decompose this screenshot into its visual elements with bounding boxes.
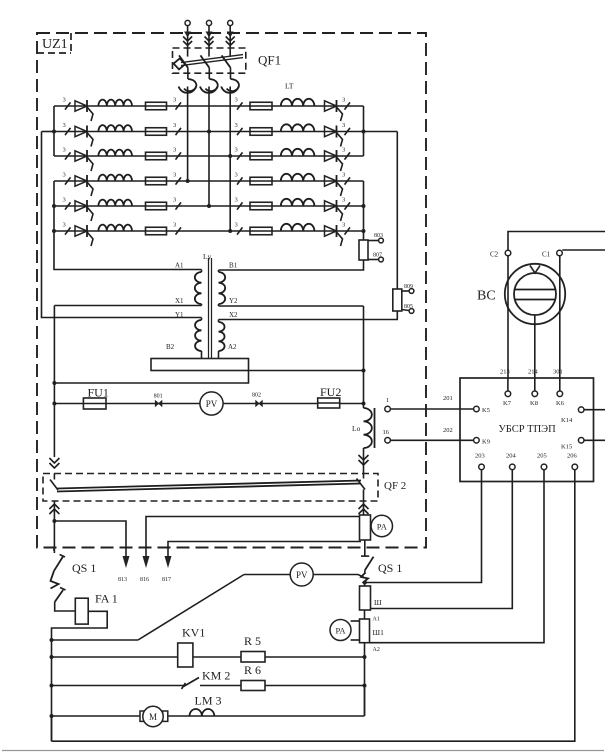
svg-text:УБСР ТПЭП: УБСР ТПЭП bbox=[498, 424, 556, 435]
contactor row wire bbox=[52, 685, 184, 687]
svg-text:203: 203 bbox=[475, 453, 485, 460]
motor row wire bbox=[52, 715, 365, 717]
svg-text:3: 3 bbox=[235, 147, 238, 154]
fuse row 2 left bbox=[146, 128, 167, 136]
svg-text:3: 3 bbox=[235, 97, 238, 104]
inductor row 1 right bbox=[281, 99, 315, 106]
contact KM2 bbox=[182, 683, 186, 689]
svg-text:K15: K15 bbox=[561, 444, 572, 451]
row 6 parallel mark left inner bbox=[176, 227, 182, 234]
svg-text:A1: A1 bbox=[175, 262, 184, 270]
svg-text:201: 201 bbox=[443, 395, 453, 402]
row 1 parallel mark left outer bbox=[65, 102, 71, 109]
svg-text:3: 3 bbox=[63, 122, 66, 129]
svg-text:3: 3 bbox=[63, 172, 66, 179]
circuit breaker QF1 bbox=[173, 48, 246, 106]
voltmeter row wire bbox=[54, 403, 363, 405]
svg-text:K14: K14 bbox=[561, 417, 573, 424]
svg-text:PV: PV bbox=[206, 399, 218, 409]
left output wire to QS1 bbox=[53, 501, 55, 553]
terminal K8 bbox=[534, 378, 536, 391]
inductor row 1 left bbox=[98, 100, 132, 106]
thyristor row 2 left bbox=[75, 126, 87, 136]
outer left bus down to Y1 bbox=[42, 132, 202, 318]
svg-text:X2: X2 bbox=[229, 311, 238, 319]
row 4 parallel mark left outer bbox=[65, 177, 71, 184]
row 2 parallel mark right outer bbox=[345, 128, 351, 135]
thyristor row 4 left bbox=[75, 176, 87, 186]
svg-text:801: 801 bbox=[154, 394, 163, 400]
terminal C1 bbox=[557, 250, 563, 256]
QF2 left post bbox=[53, 474, 55, 480]
svg-text:QF1: QF1 bbox=[258, 53, 281, 68]
QF2 left contact bbox=[50, 480, 58, 491]
wire QS1 to FA1 bbox=[55, 602, 76, 611]
wire BC mid to K8 bbox=[534, 315, 536, 391]
svg-text:3: 3 bbox=[235, 222, 238, 229]
svg-text:809: 809 bbox=[404, 284, 413, 290]
ammeter PA lower bbox=[351, 620, 360, 622]
terminal K6 bbox=[559, 378, 561, 391]
wire busbar to output bus left bbox=[54, 371, 248, 384]
tap wire 817 bbox=[168, 542, 361, 557]
fuse row 3 right bbox=[250, 152, 272, 160]
svg-text:301: 301 bbox=[553, 369, 563, 376]
wire Lo to QF2 bbox=[363, 448, 365, 474]
svg-text:3: 3 bbox=[342, 197, 345, 204]
row 4 parallel mark right outer bbox=[345, 177, 351, 184]
inductor row 2 right bbox=[281, 124, 315, 131]
row 3 wire bbox=[54, 155, 364, 157]
tap wire 813 bbox=[54, 521, 126, 556]
svg-text:A2: A2 bbox=[373, 647, 380, 653]
row 4 wire bbox=[54, 180, 364, 182]
relay coil KV1 bbox=[178, 643, 193, 667]
svg-text:LM 3: LM 3 bbox=[195, 694, 222, 708]
svg-text:PA: PA bbox=[377, 522, 388, 532]
svg-text:214: 214 bbox=[528, 369, 539, 376]
svg-text:3: 3 bbox=[235, 122, 238, 129]
svg-text:K8: K8 bbox=[530, 400, 538, 407]
left control bus bbox=[51, 640, 53, 741]
Y2 wire down bbox=[219, 305, 364, 307]
svg-text:3: 3 bbox=[63, 197, 66, 204]
equalizing reactor Ly bbox=[195, 258, 225, 359]
fuse row 1 left bbox=[146, 102, 167, 110]
svg-text:A1: A1 bbox=[373, 617, 380, 623]
right column wire bbox=[364, 581, 366, 586]
row 3 parallel mark left outer bbox=[65, 152, 71, 159]
scan page edge bbox=[2, 750, 604, 752]
svg-text:3: 3 bbox=[63, 147, 66, 154]
voltmeter PV bbox=[200, 392, 223, 415]
row 4 parallel mark left inner bbox=[176, 177, 182, 184]
svg-text:B1: B1 bbox=[229, 262, 238, 270]
svg-text:KV1: KV1 bbox=[182, 626, 205, 640]
svg-text:803: 803 bbox=[374, 233, 383, 239]
svg-text:3: 3 bbox=[173, 147, 176, 154]
thyristor row 1 right bbox=[325, 101, 337, 111]
outer right bus down to RC box bbox=[396, 132, 398, 290]
svg-text:K6: K6 bbox=[556, 400, 565, 407]
svg-text:204: 204 bbox=[506, 453, 517, 460]
smoothing reactor Lo bbox=[364, 408, 372, 448]
svg-text:3: 3 bbox=[173, 122, 176, 129]
thyristor row 6 right bbox=[325, 226, 337, 236]
inductor row 6 right bbox=[281, 224, 315, 231]
fuse row 6 right bbox=[250, 227, 272, 235]
tachogenerator BC bbox=[505, 264, 565, 324]
svg-text:802: 802 bbox=[252, 393, 261, 399]
svg-text:K7: K7 bbox=[503, 400, 512, 407]
fuse FA1 bbox=[75, 598, 88, 624]
svg-text:3: 3 bbox=[342, 172, 345, 179]
reactor output busbar bbox=[151, 359, 249, 371]
svg-text:K9: K9 bbox=[482, 438, 490, 445]
terminal K15 wire bbox=[578, 438, 584, 444]
bottom bus bbox=[51, 716, 53, 741]
wire row2 to outer left bus bbox=[42, 131, 55, 133]
row 2 parallel mark left outer bbox=[65, 128, 71, 135]
svg-text:ВС: ВС bbox=[477, 289, 496, 304]
svg-text:R 6: R 6 bbox=[244, 663, 261, 677]
svg-text:R 5: R 5 bbox=[244, 634, 261, 648]
row 1 parallel mark right inner bbox=[237, 102, 243, 109]
thyristor row 3 right bbox=[325, 151, 337, 161]
fuse row 4 right bbox=[250, 177, 272, 185]
ammeter shunt bbox=[360, 515, 371, 540]
shunt Sh bbox=[360, 586, 371, 610]
svg-text:X1: X1 bbox=[175, 297, 184, 305]
terminal 203 wire bbox=[479, 464, 485, 470]
svg-text:813: 813 bbox=[118, 577, 127, 583]
row 6 wire bbox=[54, 230, 364, 232]
svg-text:202: 202 bbox=[443, 427, 453, 434]
row 6 parallel mark left outer bbox=[65, 227, 71, 234]
terminal K9 bbox=[474, 438, 480, 444]
terminal 204 wire bbox=[510, 464, 516, 470]
input supply terminals with connector arrows bbox=[183, 20, 235, 56]
snubber box 803-807 bbox=[359, 240, 368, 260]
svg-text:Y2: Y2 bbox=[229, 297, 238, 305]
converter unit UZ1 dashed enclosure bbox=[37, 33, 426, 548]
row 2 parallel mark left inner bbox=[176, 128, 182, 135]
QF2 right contact bbox=[357, 479, 366, 490]
svg-text:QF 2: QF 2 bbox=[384, 480, 406, 492]
svg-text:807: 807 bbox=[373, 253, 382, 259]
row 3 parallel mark right outer bbox=[345, 152, 351, 159]
svg-text:3: 3 bbox=[342, 122, 345, 129]
phase bus B wire bbox=[208, 106, 210, 206]
fuse row 1 right bbox=[250, 102, 272, 110]
wire busbar to right bus bbox=[249, 370, 364, 372]
svg-text:PA: PA bbox=[335, 626, 346, 636]
phase bus C wire bbox=[229, 106, 231, 231]
row 1 parallel mark right outer bbox=[345, 102, 351, 109]
output bus right segment bbox=[363, 371, 365, 409]
group2 right bus to RC box bbox=[363, 231, 365, 240]
wire C1 off-page bbox=[562, 249, 605, 251]
wire box to X2 bbox=[219, 311, 398, 320]
right column lower wire bbox=[364, 643, 366, 716]
terminal K14 wire bbox=[578, 407, 584, 413]
svg-text:M: M bbox=[149, 712, 157, 722]
cathode group 1 left bus bbox=[53, 106, 55, 156]
thyristor row 5 right bbox=[325, 201, 337, 211]
svg-text:Lо: Lо bbox=[352, 424, 361, 433]
row 5 parallel mark right inner bbox=[237, 202, 243, 209]
row 1 parallel mark left inner bbox=[176, 102, 182, 109]
group 2 bus down to A1 bbox=[54, 231, 202, 270]
fuse row 5 left bbox=[146, 202, 167, 210]
svg-text:A2: A2 bbox=[228, 343, 237, 351]
wire FA1 out bbox=[52, 611, 108, 640]
svg-text:3: 3 bbox=[173, 172, 176, 179]
inductor row 3 left bbox=[98, 150, 132, 156]
thyristor row 1 left bbox=[75, 101, 87, 111]
svg-text:816: 816 bbox=[140, 577, 149, 583]
row 6 parallel mark right inner bbox=[237, 227, 243, 234]
thyristor row 2 right bbox=[325, 126, 337, 136]
svg-text:16: 16 bbox=[383, 429, 390, 436]
connector 802 bbox=[256, 401, 263, 407]
svg-text:C2: C2 bbox=[490, 251, 499, 259]
resistor R6 bbox=[241, 681, 265, 691]
row 6 parallel mark right outer bbox=[345, 227, 351, 234]
terminal C2 bbox=[505, 250, 511, 256]
svg-text:Y1: Y1 bbox=[175, 311, 184, 319]
output bus left segment bbox=[53, 306, 55, 458]
row 3 parallel mark right inner bbox=[237, 152, 243, 159]
inductor LM3 bbox=[190, 709, 215, 716]
svg-text:UZ1: UZ1 bbox=[42, 37, 68, 52]
terminal 205 wire bbox=[541, 464, 547, 470]
fuse row 5 right bbox=[250, 202, 272, 210]
QF2 knife blades bbox=[57, 481, 361, 489]
X1 wire to output bus bbox=[54, 305, 201, 307]
fuse FU2 bbox=[318, 398, 340, 408]
anode group 2 right bus bbox=[363, 181, 365, 231]
svg-text:213: 213 bbox=[500, 369, 510, 376]
svg-text:K5: K5 bbox=[482, 407, 490, 414]
right wire QF2 to shunt bbox=[363, 490, 365, 541]
row 5 parallel mark left outer bbox=[65, 202, 71, 209]
connector 801 bbox=[155, 401, 162, 407]
row 5 parallel mark right outer bbox=[345, 202, 351, 209]
row 5 wire bbox=[54, 205, 364, 207]
svg-text:FU1: FU1 bbox=[88, 386, 109, 400]
svg-text:Ш1: Ш1 bbox=[373, 628, 385, 637]
svg-text:3: 3 bbox=[342, 147, 345, 154]
wire Sh to Sh1 bbox=[364, 610, 366, 619]
inductor row 3 right bbox=[281, 149, 315, 156]
thyristor row 4 right bbox=[325, 176, 337, 186]
fuse row 2 right bbox=[250, 128, 272, 136]
diagonal wire to PV bbox=[138, 575, 244, 641]
anode group 1 right bus bbox=[363, 106, 365, 156]
row 1 wire bbox=[54, 105, 364, 107]
connector chevrons below QF2 right bbox=[359, 504, 369, 509]
svg-text:FA 1: FA 1 bbox=[95, 592, 118, 606]
fuse FU1 bbox=[83, 398, 106, 409]
svg-text:3: 3 bbox=[173, 197, 176, 204]
svg-text:QS 1: QS 1 bbox=[378, 561, 402, 575]
terminal 16 wire 202 bbox=[385, 438, 391, 444]
wire box to B1 bbox=[219, 260, 364, 270]
svg-text:3: 3 bbox=[342, 97, 345, 104]
phase junction dots bbox=[186, 130, 233, 234]
row 3 parallel mark left inner bbox=[176, 152, 182, 159]
phase bus A wire bbox=[187, 106, 189, 181]
ammeter PA upper bbox=[371, 515, 392, 536]
inductor row 4 left bbox=[98, 175, 132, 181]
svg-text:3: 3 bbox=[173, 97, 176, 104]
svg-text:PV: PV bbox=[296, 570, 308, 580]
row 4 parallel mark right inner bbox=[237, 177, 243, 184]
svg-text:205: 205 bbox=[537, 453, 547, 460]
shunt Sh1 bbox=[360, 619, 370, 643]
svg-text:1: 1 bbox=[386, 397, 389, 404]
svg-text:3: 3 bbox=[173, 222, 176, 229]
regulator block UBSR TPEP bbox=[460, 378, 594, 482]
terminal 1 wire 201 bbox=[385, 406, 391, 412]
tap wire 816 bbox=[146, 517, 361, 557]
resistor R5 bbox=[241, 652, 265, 663]
svg-text:KM 2: KM 2 bbox=[202, 669, 230, 683]
relay row wire bbox=[52, 656, 365, 658]
inductor row 2 left bbox=[98, 125, 132, 131]
wire PV to QS1 right bbox=[313, 575, 363, 578]
inductor row 4 right bbox=[281, 174, 315, 181]
wire BC right to K6 bbox=[559, 256, 561, 391]
disconnector QS1 left bbox=[53, 548, 55, 551]
terminal 206 wire bbox=[572, 464, 578, 470]
wire C2 up and off-page bbox=[508, 232, 605, 251]
connector chevrons above QF2 right bbox=[359, 455, 369, 460]
thyristor row 3 left bbox=[75, 151, 87, 161]
svg-text:817: 817 bbox=[162, 577, 171, 583]
wire row2 right to outer bus bbox=[364, 131, 398, 133]
wire to voltmeter PV lower bbox=[244, 574, 290, 576]
disconnector QS1 right bbox=[364, 540, 366, 557]
inductor row 6 left bbox=[98, 225, 132, 231]
terminal K5 bbox=[474, 406, 480, 412]
thyristor row 6 left bbox=[75, 226, 87, 236]
svg-text:QS 1: QS 1 bbox=[72, 561, 96, 575]
svg-text:206: 206 bbox=[567, 453, 578, 460]
svg-text:C1: C1 bbox=[542, 251, 551, 259]
fuse row 6 left bbox=[146, 227, 167, 235]
voltmeter PV lower bbox=[290, 563, 313, 586]
svg-text:B2: B2 bbox=[166, 343, 175, 351]
inductor row 5 left bbox=[98, 200, 132, 206]
svg-text:3: 3 bbox=[63, 222, 66, 229]
svg-text:LT: LT bbox=[285, 82, 294, 91]
svg-text:Lу: Lу bbox=[203, 252, 212, 261]
connector chevrons below QF2 left bbox=[49, 504, 59, 509]
junction row wire bbox=[52, 639, 139, 641]
fuse row 3 left bbox=[146, 152, 167, 160]
thyristor row 5 left bbox=[75, 201, 87, 211]
svg-text:FU2: FU2 bbox=[320, 385, 341, 399]
row 2 parallel mark right inner bbox=[237, 128, 243, 135]
svg-text:3: 3 bbox=[342, 222, 345, 229]
svg-text:Ш: Ш bbox=[374, 598, 382, 607]
svg-text:3: 3 bbox=[235, 172, 238, 179]
svg-text:805: 805 bbox=[404, 304, 413, 310]
row 2 wire bbox=[54, 131, 364, 133]
wire BC left to K7 bbox=[507, 256, 509, 391]
cathode group 2 left bus bbox=[53, 181, 55, 231]
terminal K7 bbox=[507, 378, 509, 391]
circuit breaker QF2 dashed box bbox=[43, 474, 378, 502]
connector chevrons above QF2 left bbox=[49, 458, 59, 463]
fuse row 4 left bbox=[146, 177, 167, 185]
svg-text:3: 3 bbox=[63, 97, 66, 104]
svg-text:3: 3 bbox=[235, 197, 238, 204]
QF2 right post bbox=[363, 474, 365, 479]
inductor row 5 right bbox=[281, 199, 315, 206]
row 5 parallel mark left inner bbox=[176, 202, 182, 209]
motor M bbox=[140, 711, 145, 721]
snubber box 809-805 bbox=[393, 289, 402, 311]
